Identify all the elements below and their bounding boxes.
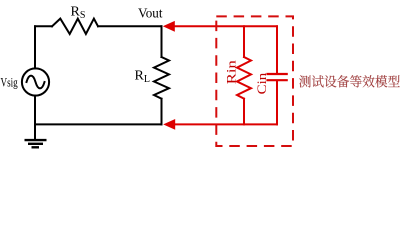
wire RL bottom lead <box>161 99 163 125</box>
source sine wave <box>27 76 45 89</box>
capacitor Cin plates <box>268 73 287 75</box>
resistor Rin top lead <box>243 26 245 57</box>
source Vsig circle <box>22 68 49 95</box>
wire red top (to capacitor branch) <box>174 25 278 27</box>
resistor Rin bottom lead <box>243 99 245 125</box>
label 测试设备等效模型 <box>299 75 400 87</box>
wire capacitor top lead <box>276 26 278 73</box>
wire left vertical upper <box>34 26 36 68</box>
arrow bottom <box>163 119 175 130</box>
wire red bottom <box>174 123 278 125</box>
svg-text:Vout: Vout <box>138 6 163 21</box>
resistor RS <box>52 19 98 34</box>
wire RL top lead <box>161 26 163 57</box>
svg-text:Vsig: Vsig <box>1 74 19 89</box>
wire left vertical lower <box>34 96 36 140</box>
wire top-left from source to resistor RS <box>35 25 52 27</box>
wire bottom <box>35 123 162 125</box>
dashed box (test equipment model) <box>216 16 293 146</box>
wire RS to Vout node <box>98 25 162 27</box>
svg-text:Cin: Cin <box>254 72 269 94</box>
resistor Rin <box>237 57 251 99</box>
svg-text:Rin: Rin <box>224 60 239 85</box>
arrow top <box>163 21 175 32</box>
wire capacitor bottom lead <box>276 81 278 124</box>
ground <box>25 140 47 147</box>
resistor RL <box>154 57 169 99</box>
